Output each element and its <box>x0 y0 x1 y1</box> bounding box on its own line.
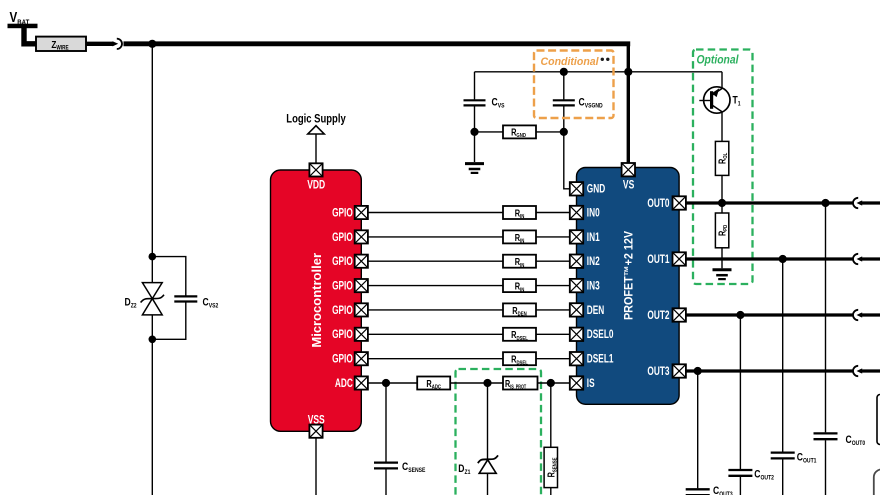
svg-text:Optional: Optional <box>697 54 740 67</box>
wire bus down to VS pin <box>627 44 630 163</box>
pin IS <box>570 376 583 389</box>
junction VS rail and bus <box>624 68 632 76</box>
wire RGND to CVSGND node <box>536 131 564 133</box>
pin GPIO 4 <box>355 279 368 292</box>
wire ROL to OUT0 <box>721 175 723 203</box>
wire ADC to RADC <box>368 382 417 384</box>
resistor RIN row IN0 <box>503 206 536 220</box>
protection dashed box <box>456 369 542 495</box>
svg-text:IN0: IN0 <box>587 207 600 220</box>
svg-text:ADC: ADC <box>335 378 353 391</box>
transistor T1 <box>699 72 741 142</box>
pin DEN <box>570 303 583 316</box>
svg-text:DSEL1: DSEL1 <box>587 353 614 366</box>
svg-text:VDD: VDD <box>307 180 325 193</box>
svg-text:OUT3: OUT3 <box>647 366 669 379</box>
resistor RIN row IN2 <box>503 255 536 269</box>
wire DZ2 to bottom junction <box>151 315 153 339</box>
pin VSS <box>309 425 322 438</box>
svg-text:GPIO: GPIO <box>332 207 353 220</box>
connector OUT2 <box>853 310 862 320</box>
junction OUT0 ROL <box>718 199 726 207</box>
pin GPIO 7 <box>355 352 368 365</box>
resistor RADC <box>417 377 450 391</box>
svg-text:Logic Supply: Logic Supply <box>286 113 345 126</box>
capacitor CSENSE <box>374 383 425 495</box>
wire GPIO to RDSEL row DSEL0 <box>368 333 503 335</box>
wire Logic Supply to VDD <box>315 134 317 164</box>
wire OUT1 line <box>686 257 853 260</box>
capacitor COUT3 <box>686 371 734 495</box>
pin VS <box>622 163 635 176</box>
pin ADC <box>355 376 368 389</box>
junction DZ2 top <box>149 253 157 261</box>
resistor ZWIRE <box>36 37 86 52</box>
svg-text:IN2: IN2 <box>587 256 600 269</box>
svg-text:IN3: IN3 <box>587 280 600 293</box>
svg-text:GPIO: GPIO <box>332 280 353 293</box>
capacitor CVS <box>464 72 505 132</box>
resistor RDSEL row DSEL1 <box>503 352 536 366</box>
wire VSS to bottom edge <box>315 438 317 495</box>
svg-text:GPIO: GPIO <box>332 256 353 269</box>
resistor RSENSE <box>544 383 559 495</box>
wire OUT0 line <box>686 201 853 204</box>
wire TVS branch upper <box>151 44 153 257</box>
svg-text:OUT0: OUT0 <box>647 198 669 211</box>
ground in optional box <box>713 270 732 279</box>
wire main supply bus <box>124 41 631 46</box>
svg-text:GND: GND <box>587 183 605 196</box>
diode DZ2 bidirectional TVS <box>125 283 165 315</box>
optional dashed box <box>693 50 753 285</box>
wire GPIO to RDEN row DEN <box>368 309 503 311</box>
resistor RDSEL row DSEL0 <box>503 328 536 342</box>
connector battery plug <box>113 39 123 49</box>
capacitor CVS2 <box>152 257 218 340</box>
pin GND <box>570 182 583 195</box>
ground under CVS <box>465 164 484 173</box>
wire VBAT to ZWIRE <box>24 26 37 44</box>
pin IN2 <box>570 255 583 268</box>
pin OUT1 <box>673 252 686 265</box>
wire CVS node to RGND <box>475 131 504 133</box>
resistor RGND <box>503 125 536 139</box>
pin IN1 <box>570 230 583 243</box>
battery terminal bar VBAT <box>8 24 38 29</box>
resistor RIN row IN1 <box>503 230 536 244</box>
IC microcontroller body <box>271 170 362 431</box>
wire GPIO to RDSEL row DSEL1 <box>368 358 503 360</box>
conditional dashed box <box>534 51 614 119</box>
wire top thin rail VS <box>475 71 723 73</box>
svg-text:Conditional: Conditional <box>541 55 600 67</box>
resistor RDEN row DEN <box>503 303 536 317</box>
pin DSEL0 <box>570 328 583 341</box>
capacitor CVSGND <box>553 72 603 132</box>
junction DZ2 bottom <box>149 336 157 344</box>
wire CVS node to ground <box>474 132 476 162</box>
svg-text:IN1: IN1 <box>587 232 600 245</box>
pin GPIO 5 <box>355 303 368 316</box>
wire GPIO to RIN row IN2 <box>368 260 503 262</box>
svg-text:OUT1: OUT1 <box>647 254 669 267</box>
svg-text:DEN: DEN <box>587 305 604 318</box>
junction CVS bottom <box>470 128 478 136</box>
junction CSENSE node <box>382 379 390 387</box>
pin OUT2 <box>673 308 686 321</box>
capacitor COUT1 <box>771 259 817 495</box>
wire RISPROT to IS pin <box>538 382 571 384</box>
wire CVSGND node to GND pin <box>564 132 570 189</box>
resistor RIN row IN3 <box>503 279 536 293</box>
junction OUT1 capacitor <box>779 255 787 263</box>
pin VDD <box>309 163 322 176</box>
pin OUT3 <box>673 364 686 377</box>
wire OUT3 line <box>686 369 853 372</box>
load box upper right edge <box>877 395 880 445</box>
pin GPIO 2 <box>355 230 368 243</box>
wire GPIO to RIN row IN1 <box>368 236 503 238</box>
junction OUT2 capacitor <box>736 311 744 319</box>
pin GPIO 1 <box>355 206 368 219</box>
junction OUT0 capacitor <box>821 199 829 207</box>
wire junction to DZ2 <box>151 257 153 283</box>
junction RSENSE node <box>547 379 555 387</box>
svg-text:GPIO: GPIO <box>332 305 353 318</box>
svg-text:GPIO: GPIO <box>332 353 353 366</box>
resistor RPD <box>715 203 729 248</box>
svg-text:Microcontroller: Microcontroller <box>309 253 324 348</box>
svg-text:DSEL0: DSEL0 <box>587 329 614 342</box>
pin GPIO 6 <box>355 328 368 341</box>
pin GPIO 3 <box>355 255 368 268</box>
junction CVSGND bottom <box>560 128 568 136</box>
svg-text:OUT2: OUT2 <box>647 310 669 323</box>
junction CVSGND top <box>560 68 568 76</box>
pin IN0 <box>570 206 583 219</box>
wire RADC to RISPROT <box>450 382 503 384</box>
load box lower right edge <box>874 469 880 495</box>
connector OUT0 <box>853 198 862 208</box>
svg-text:GPIO: GPIO <box>332 232 353 245</box>
connector OUT3 <box>853 366 862 376</box>
pin IN3 <box>570 279 583 292</box>
diode DZ1 zener <box>458 383 498 495</box>
junction bus and TVS branch <box>148 40 156 48</box>
svg-text:PROFET™+2 12V: PROFET™+2 12V <box>623 231 636 320</box>
wire GPIO to RIN row IN0 <box>368 212 503 214</box>
wire RPD to ground <box>721 248 723 268</box>
junction OUT3 capacitor <box>694 367 702 375</box>
connector OUT1 <box>853 254 862 264</box>
svg-text:IS: IS <box>587 378 595 391</box>
pin OUT0 <box>673 196 686 209</box>
capacitor COUT0 <box>814 203 866 495</box>
svg-text:GPIO: GPIO <box>332 329 353 342</box>
wire ZWIRE to connector <box>86 42 114 46</box>
junction DZ1 node <box>483 379 491 387</box>
wire OUT2 line <box>686 313 853 316</box>
resistor RISPROT <box>503 377 538 390</box>
IC PROFET+2 12V body <box>577 168 680 405</box>
resistor ROL <box>715 141 729 175</box>
svg-text:VS: VS <box>623 179 635 192</box>
net label Logic Supply <box>286 113 345 134</box>
wire GPIO to RIN row IN3 <box>368 285 503 287</box>
wire TVS branch to bottom edge <box>151 339 153 495</box>
pin DSEL1 <box>570 352 583 365</box>
capacitor COUT2 <box>728 315 774 495</box>
